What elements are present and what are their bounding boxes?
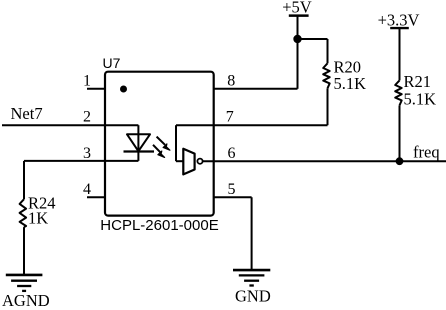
svg-text:4: 4	[83, 181, 91, 198]
svg-text:1: 1	[83, 73, 91, 90]
svg-text:5: 5	[228, 181, 236, 198]
svg-text:5.1K: 5.1K	[334, 74, 367, 93]
svg-text:3: 3	[83, 145, 91, 162]
svg-text:HCPL-2601-000E: HCPL-2601-000E	[100, 217, 218, 234]
svg-text:AGND: AGND	[2, 291, 50, 310]
svg-text:freq: freq	[413, 143, 440, 162]
svg-text:8: 8	[227, 73, 235, 90]
svg-text:+5V: +5V	[282, 0, 312, 16]
svg-text:2: 2	[83, 109, 91, 126]
svg-text:1K: 1K	[28, 209, 48, 228]
svg-text:6: 6	[228, 145, 236, 162]
svg-text:7: 7	[226, 109, 234, 126]
svg-text:R21: R21	[404, 72, 432, 91]
svg-text:+3.3V: +3.3V	[378, 11, 420, 30]
svg-text:U7: U7	[103, 55, 121, 71]
svg-text:Net7: Net7	[11, 104, 43, 123]
svg-text:5.1K: 5.1K	[404, 90, 437, 109]
svg-text:GND: GND	[235, 287, 271, 306]
